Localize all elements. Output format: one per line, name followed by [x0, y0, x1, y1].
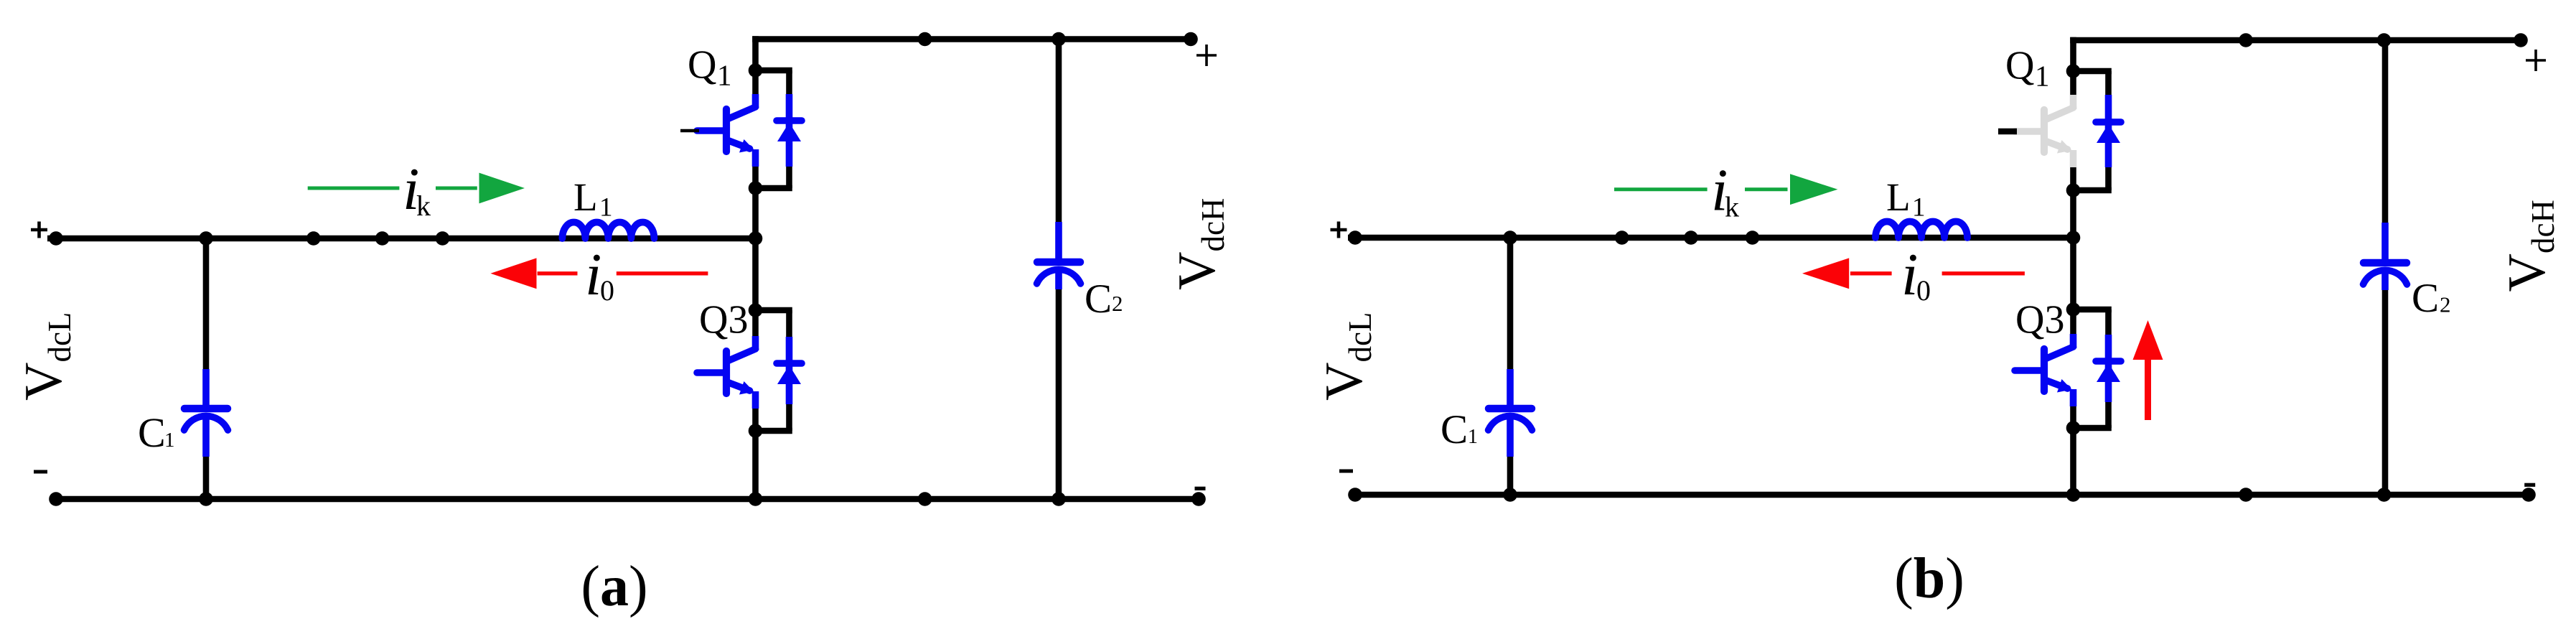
svg-text:1: 1 — [717, 59, 732, 92]
svg-text:2: 2 — [2440, 292, 2451, 317]
svg-text:1: 1 — [599, 193, 613, 223]
svg-text:i: i — [585, 241, 601, 308]
svg-text:VdcL: VdcL — [14, 312, 78, 401]
svg-text:Q3: Q3 — [699, 298, 748, 343]
svg-text:(b): (b) — [1894, 547, 1964, 610]
svg-text:Q3: Q3 — [2015, 298, 2064, 343]
svg-text:L: L — [573, 175, 598, 219]
svg-text:L: L — [1886, 175, 1911, 219]
svg-text:C: C — [1441, 407, 1468, 452]
svg-text:C: C — [138, 409, 166, 456]
svg-text:0: 0 — [1916, 274, 1931, 307]
svg-text:C: C — [2412, 276, 2439, 321]
svg-text:Q: Q — [688, 43, 716, 88]
svg-text:i: i — [1901, 241, 1918, 308]
svg-text:Q: Q — [2005, 44, 2034, 88]
svg-text:C: C — [1085, 276, 1112, 322]
svg-text:0: 0 — [600, 274, 614, 307]
svg-text:1: 1 — [164, 429, 175, 452]
svg-text:2: 2 — [1112, 291, 1123, 316]
svg-text:1: 1 — [1912, 193, 1926, 223]
svg-text:(a): (a) — [581, 555, 647, 618]
svg-text:VdcH: VdcH — [2498, 200, 2561, 292]
svg-text:1: 1 — [2035, 60, 2050, 93]
svg-text:k: k — [416, 190, 431, 222]
svg-text:k: k — [1725, 191, 1739, 223]
svg-text:VdcH: VdcH — [1168, 198, 1231, 290]
svg-text:VdcL: VdcL — [1315, 312, 1378, 401]
svg-text:1: 1 — [1468, 426, 1478, 448]
